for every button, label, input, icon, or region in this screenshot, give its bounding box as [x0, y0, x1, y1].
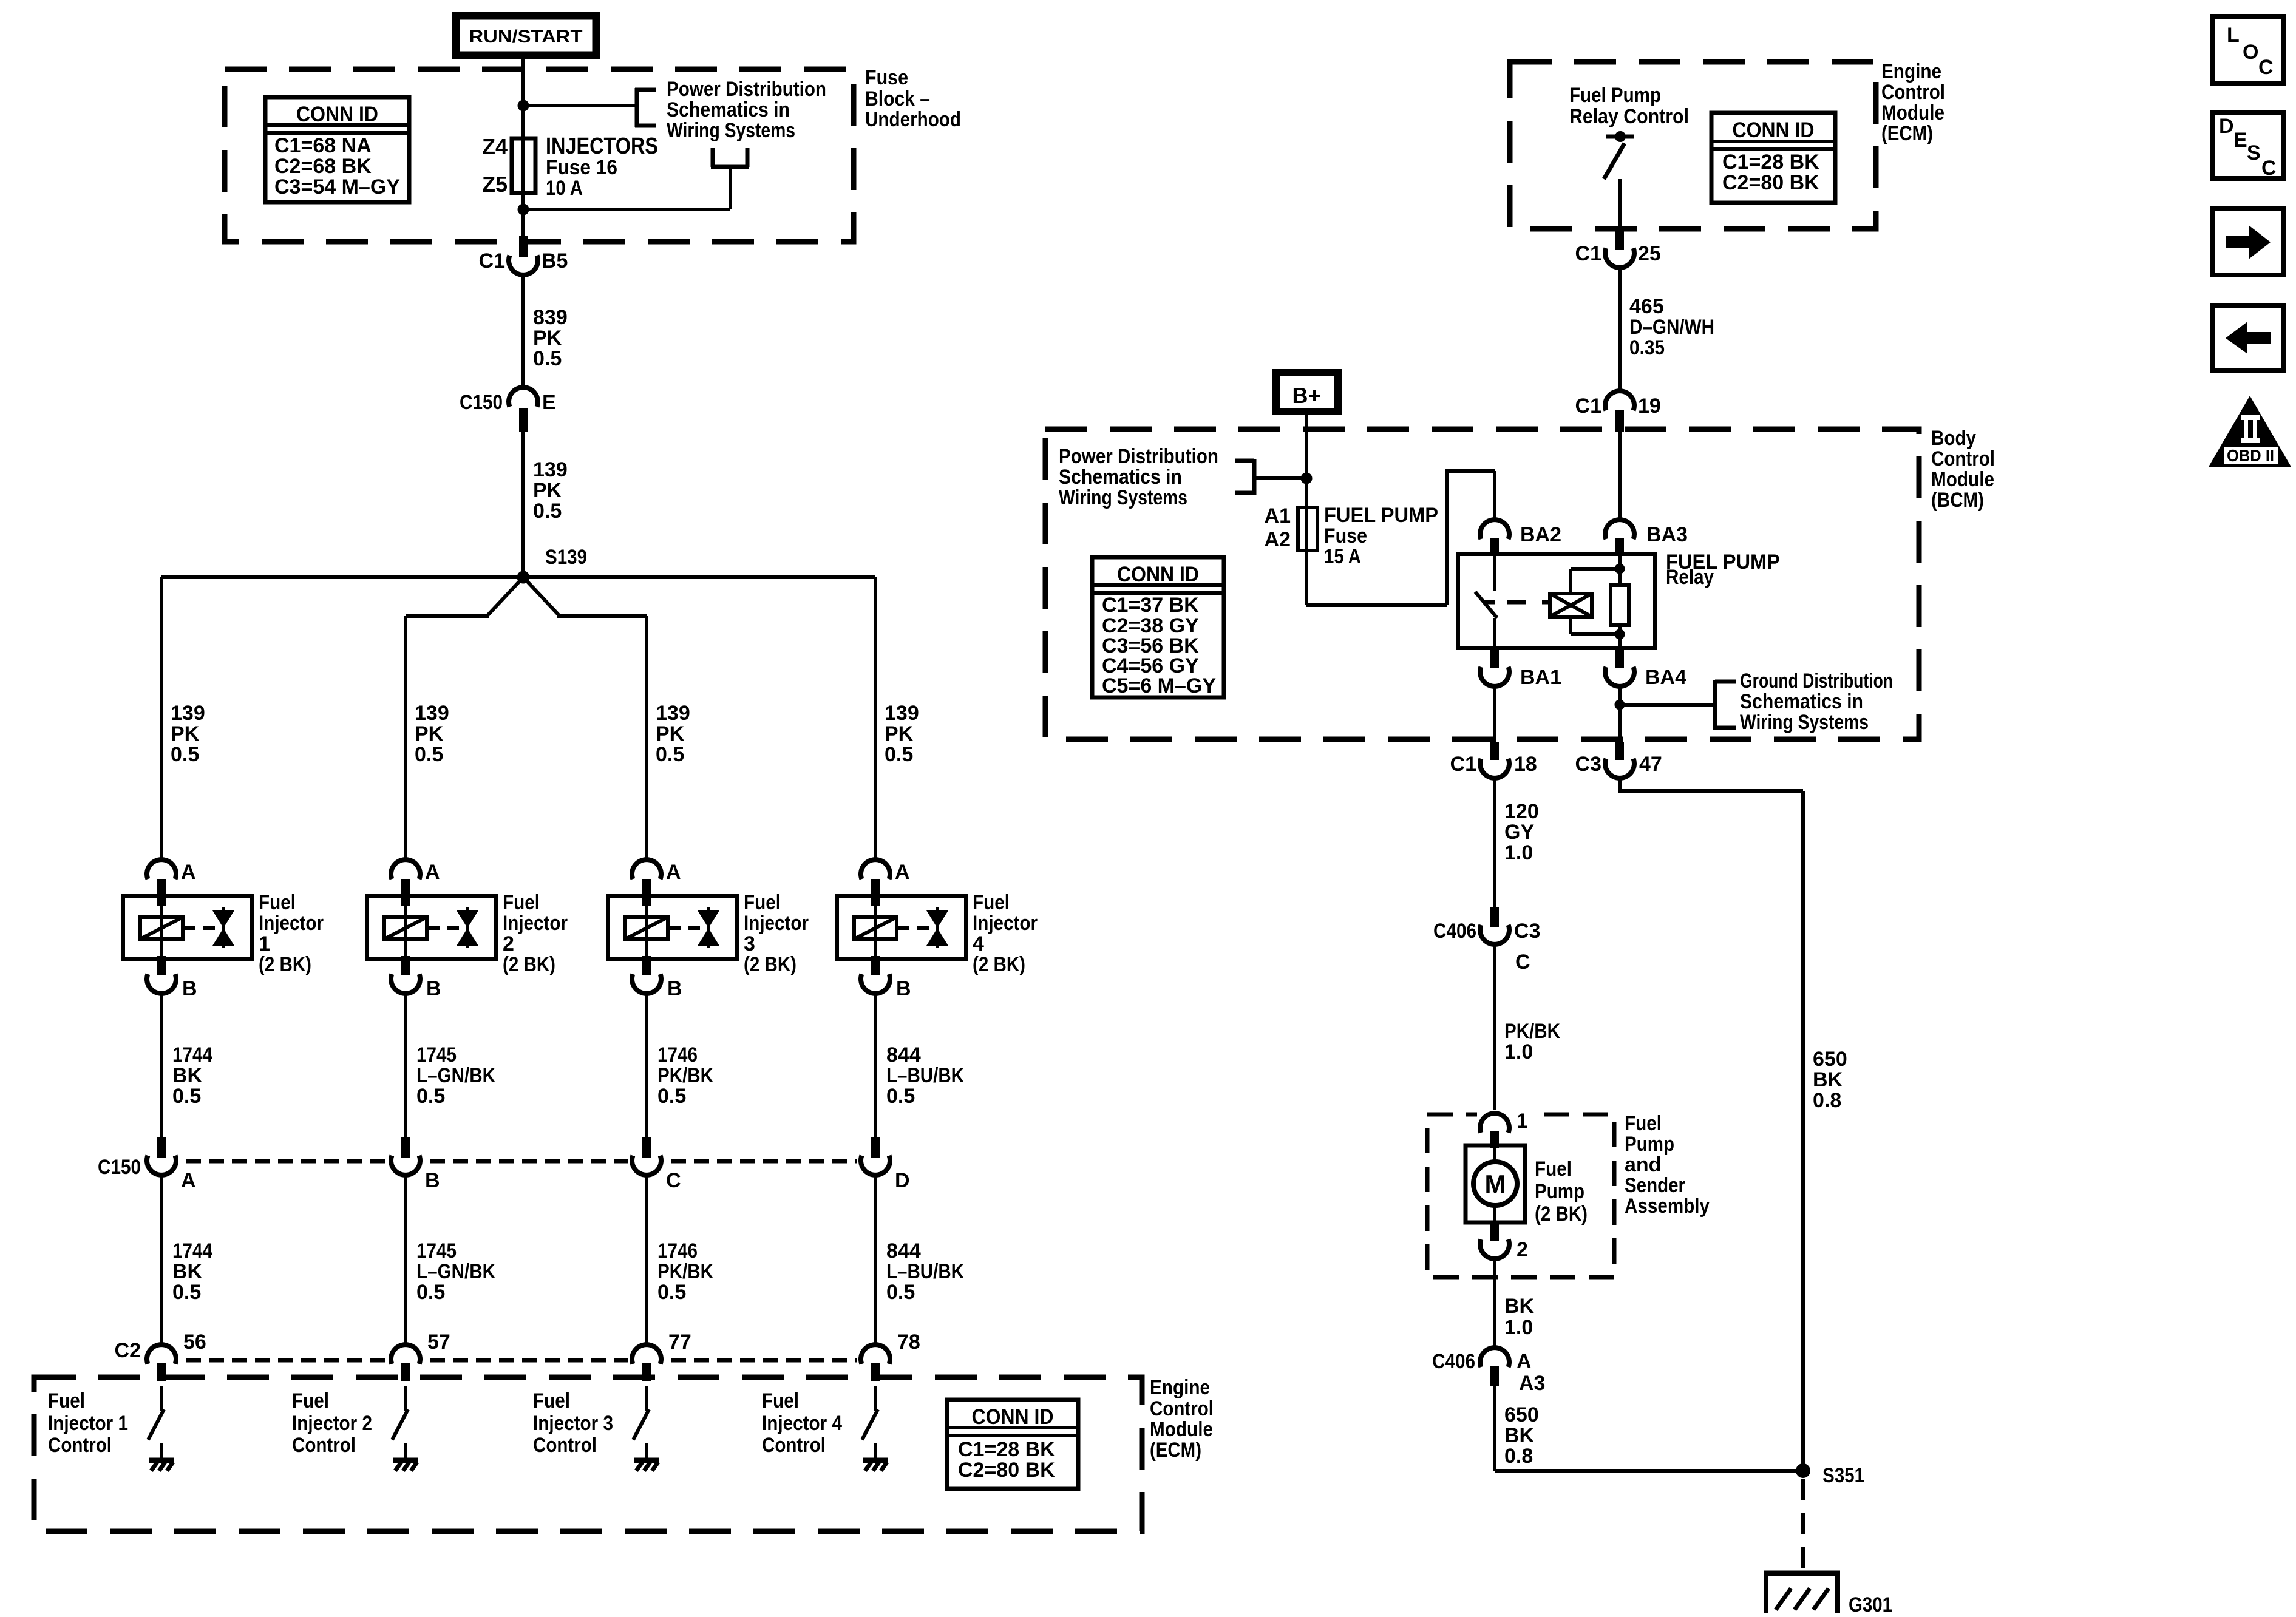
svg-text:CONN ID: CONN ID — [1733, 118, 1815, 142]
svg-text:1745: 1745 — [416, 1239, 457, 1263]
svg-text:Injector 4: Injector 4 — [762, 1412, 842, 1435]
connector pin 2 fuel pump — [1480, 1222, 1528, 1261]
svg-text:S139: S139 — [545, 546, 587, 569]
svg-text:D: D — [2219, 115, 2234, 138]
svg-text:1.0: 1.0 — [1504, 1316, 1533, 1339]
svg-text:0.5: 0.5 — [657, 1281, 686, 1304]
wire branch 3 139 PK 0.5 — [647, 616, 690, 862]
svg-text:PK: PK — [171, 722, 200, 745]
fuel pump and sender assembly dashed box — [1427, 1114, 1614, 1277]
svg-text:Injector 2: Injector 2 — [292, 1412, 372, 1435]
svg-text:650: 650 — [1504, 1403, 1539, 1426]
svg-text:Fuel: Fuel — [1625, 1112, 1662, 1135]
label FUEL PUMP Relay — [1666, 551, 1780, 589]
svg-text:0.5: 0.5 — [886, 1281, 915, 1304]
wire BA4 to C3 47 — [1618, 686, 1622, 742]
connector C2 pin 56 — [147, 1331, 206, 1381]
label Fuel Pump and Sender Assembly — [1625, 1112, 1710, 1218]
svg-text:C1=28 BK: C1=28 BK — [958, 1438, 1055, 1461]
svg-text:A1: A1 — [1265, 504, 1291, 527]
svg-text:Pump: Pump — [1625, 1133, 1674, 1156]
connector pin 1 fuel pump — [1477, 1110, 1532, 1148]
svg-text:Fuel: Fuel — [533, 1389, 570, 1412]
svg-text:3: 3 — [744, 932, 755, 955]
svg-text:Fuel: Fuel — [48, 1389, 85, 1412]
label Fuel Injector 4 Control — [762, 1389, 842, 1457]
svg-text:Schematics in: Schematics in — [1740, 690, 1863, 713]
svg-text:(ECM): (ECM) — [1150, 1439, 1201, 1462]
svg-text:B: B — [425, 1169, 440, 1192]
svg-text:(2 BK): (2 BK) — [503, 953, 555, 976]
svg-text:Schematics in: Schematics in — [667, 98, 790, 121]
connector C150 pin B — [391, 1137, 440, 1192]
svg-text:O: O — [2243, 41, 2258, 64]
svg-text:(2 BK): (2 BK) — [1535, 1202, 1588, 1225]
fuel pump relay control driver switch — [1604, 131, 1634, 232]
wire 844 L–BU/BK lower — [875, 1175, 964, 1346]
fuel injector 3 coil and valve — [608, 896, 737, 959]
icon OBD II triangle — [2209, 396, 2291, 467]
engine control module dashed box (top) — [1510, 62, 1876, 229]
connector pin A injector 1 — [147, 859, 196, 906]
svg-text:C150: C150 — [460, 391, 503, 414]
svg-text:Fuel: Fuel — [744, 891, 781, 914]
svg-text:839: 839 — [533, 306, 568, 329]
svg-text:PK: PK — [415, 722, 444, 745]
svg-text:139: 139 — [171, 702, 205, 725]
svg-text:Underhood: Underhood — [865, 108, 961, 131]
wire branch 1 139 PK 0.5 — [161, 577, 205, 862]
svg-text:Control: Control — [1881, 81, 1945, 104]
wire PK/BK 1.0 — [1495, 944, 1560, 1117]
wire 1745 L–GN/BK lower — [406, 1175, 495, 1346]
label Power Distribution Schematics in Wiring Systems (fuse block) — [667, 78, 826, 142]
connector ID table (ECM bottom) — [947, 1400, 1078, 1489]
svg-text:Injector: Injector — [973, 912, 1038, 935]
svg-text:Module: Module — [1150, 1418, 1213, 1441]
wire 839 PK 0.5 — [523, 274, 568, 388]
wire fuse to junction 2 — [521, 193, 525, 211]
svg-text:A: A — [895, 861, 910, 884]
wire BK 1.0 — [1495, 1259, 1535, 1349]
wire 1745 L–GN/BK upper — [406, 993, 495, 1141]
relay FUEL PUMP Relay box — [1458, 554, 1655, 648]
svg-text:Control: Control — [48, 1434, 112, 1457]
wire to power distribution bracket — [523, 88, 656, 127]
svg-text:Fuel: Fuel — [503, 891, 540, 914]
svg-text:A3: A3 — [1519, 1372, 1545, 1395]
svg-text:B+: B+ — [1292, 383, 1320, 408]
wire junction to fuse Z4 — [521, 106, 525, 141]
svg-text:77: 77 — [668, 1331, 691, 1354]
svg-text:Control: Control — [1931, 447, 1995, 470]
svg-text:1: 1 — [259, 932, 270, 955]
wire 650 BK 0.8 to S351 — [1495, 1386, 1803, 1471]
bus wire from S139 to branches — [161, 577, 875, 616]
relay coil loop wires — [1571, 569, 1620, 634]
svg-text:L–GN/BK: L–GN/BK — [416, 1260, 495, 1283]
svg-text:Power Distribution: Power Distribution — [667, 78, 826, 101]
label Fuel Injector 3 (2 BK) — [744, 891, 809, 976]
relay switch contact — [1475, 554, 1497, 648]
wire BA1 to C1 18 — [1493, 686, 1496, 742]
label Fuel Pump (2 BK) — [1535, 1158, 1588, 1225]
svg-text:B: B — [182, 977, 197, 1000]
resistor in relay — [1611, 556, 1629, 648]
svg-text:BA2: BA2 — [1520, 523, 1561, 546]
bracket to power distribution (BCM) — [1235, 459, 1306, 495]
connector pin A injector 3 — [632, 859, 681, 906]
svg-text:L: L — [2227, 24, 2240, 47]
svg-text:(BCM): (BCM) — [1931, 489, 1984, 512]
svg-text:0.35: 0.35 — [1629, 336, 1665, 359]
svg-text:Fuel: Fuel — [292, 1389, 329, 1412]
svg-text:2: 2 — [503, 932, 514, 955]
icon DESC — [2213, 113, 2284, 180]
svg-text:FUEL PUMP: FUEL PUMP — [1324, 504, 1438, 527]
svg-text:PK/BK: PK/BK — [657, 1260, 713, 1283]
svg-text:139: 139 — [533, 458, 568, 481]
svg-text:Fuel: Fuel — [1535, 1158, 1572, 1181]
svg-text:C1: C1 — [479, 249, 505, 273]
svg-text:BK: BK — [172, 1260, 203, 1283]
connector pin B injector 1 — [147, 956, 197, 1000]
connector pin B injector 3 — [632, 956, 682, 1000]
wire branch 4 139 PK 0.5 — [875, 577, 919, 862]
svg-text:Fuse: Fuse — [865, 66, 908, 89]
ground symbol injector 1 driver — [149, 1460, 174, 1471]
connector C1 18 — [1450, 742, 1537, 778]
svg-text:Control: Control — [292, 1434, 356, 1457]
svg-text:0.5: 0.5 — [416, 1085, 445, 1108]
fuel injector 4 coil and valve — [837, 896, 966, 959]
svg-text:C1=37 BK: C1=37 BK — [1102, 594, 1199, 617]
svg-text:A: A — [1517, 1350, 1532, 1373]
junction dot below fuse — [518, 204, 529, 215]
svg-text:Engine: Engine — [1881, 60, 1941, 83]
svg-text:RUN/START: RUN/START — [469, 27, 583, 47]
connector ID table (fuse block) — [265, 97, 409, 202]
svg-text:B: B — [896, 977, 911, 1000]
svg-text:15 A: 15 A — [1324, 545, 1361, 568]
label Fuse Block - Underhood — [865, 66, 961, 131]
label Fuel Injector 1 Control — [48, 1389, 128, 1457]
svg-text:Wiring Systems: Wiring Systems — [1059, 486, 1187, 509]
svg-text:PK: PK — [533, 327, 562, 350]
svg-text:Fuel: Fuel — [762, 1389, 799, 1412]
svg-text:C: C — [666, 1169, 681, 1192]
svg-text:120: 120 — [1504, 800, 1539, 823]
svg-text:GY: GY — [1504, 821, 1534, 844]
engine control module dashed box (bottom) — [34, 1377, 1142, 1531]
wire 844 L–BU/BK upper — [875, 993, 964, 1141]
label Fuel Injector 4 (2 BK) — [973, 891, 1038, 976]
svg-text:C1: C1 — [1575, 395, 1601, 418]
wire to fuse block edge — [521, 209, 525, 239]
svg-text:C1=68 NA: C1=68 NA — [274, 134, 372, 157]
svg-text:19: 19 — [1638, 395, 1661, 418]
svg-text:Injector: Injector — [259, 912, 324, 935]
junction dot ground distribution — [1615, 700, 1625, 710]
svg-text:C2: C2 — [115, 1339, 141, 1362]
svg-text:C1: C1 — [1575, 242, 1601, 265]
ground symbol injector 4 driver — [863, 1460, 888, 1471]
svg-text:Injector 1: Injector 1 — [48, 1412, 128, 1435]
svg-text:0.5: 0.5 — [657, 1085, 686, 1108]
connector ID table (BCM) — [1092, 557, 1224, 697]
svg-text:PK/BK: PK/BK — [1504, 1020, 1560, 1043]
label Fuel Injector 3 Control — [533, 1389, 613, 1457]
connector pin B injector 2 — [391, 956, 441, 1000]
svg-text:PK: PK — [656, 722, 685, 745]
icon arrow left — [2212, 305, 2284, 371]
wire 139 PK 0.5 main feed — [523, 432, 568, 577]
svg-text:Control: Control — [533, 1434, 597, 1457]
connector BA1 — [1480, 648, 1561, 689]
svg-text:Module: Module — [1881, 101, 1944, 124]
svg-text:A: A — [425, 861, 440, 884]
connector C1 B5 — [479, 236, 568, 275]
fuel injector 1 coil and valve — [123, 896, 252, 959]
svg-text:A: A — [666, 861, 681, 884]
svg-text:B: B — [667, 977, 682, 1000]
svg-text:0.5: 0.5 — [416, 1281, 445, 1304]
svg-text:139: 139 — [885, 702, 919, 725]
connector C406 A — [1432, 1347, 1545, 1395]
wire 1746 PK/BK lower — [647, 1175, 713, 1346]
fuel injector 4 control switch in ECM — [862, 1386, 878, 1459]
svg-text:10 A: 10 A — [546, 177, 583, 200]
svg-text:Fuel Pump: Fuel Pump — [1569, 84, 1661, 107]
fuel injector 2 control switch in ECM — [392, 1386, 408, 1459]
svg-text:0.8: 0.8 — [1813, 1089, 1841, 1112]
svg-text:C406: C406 — [1433, 920, 1476, 943]
svg-text:C3: C3 — [1575, 753, 1601, 776]
svg-text:465: 465 — [1629, 295, 1664, 318]
fuel injector 2 coil and valve — [367, 896, 496, 959]
svg-text:Sender: Sender — [1625, 1174, 1685, 1197]
svg-text:OBD II: OBD II — [2227, 446, 2274, 465]
svg-text:139: 139 — [415, 702, 449, 725]
svg-text:1.0: 1.0 — [1504, 1040, 1533, 1063]
svg-text:0.5: 0.5 — [533, 500, 562, 523]
label Fuel Injector 2 (2 BK) — [503, 891, 568, 976]
svg-text:S: S — [2247, 141, 2261, 164]
svg-text:Body: Body — [1931, 427, 1976, 450]
wire 465 D-GN/WH 0.35 — [1620, 268, 1714, 392]
svg-text:0.5: 0.5 — [415, 743, 443, 766]
relay actuation dashed link — [1507, 600, 1550, 605]
svg-text:Control: Control — [762, 1434, 826, 1457]
svg-text:650: 650 — [1813, 1048, 1847, 1071]
svg-text:Wiring Systems: Wiring Systems — [667, 119, 795, 142]
svg-text:47: 47 — [1639, 753, 1662, 776]
svg-text:57: 57 — [427, 1331, 450, 1354]
svg-text:Module: Module — [1931, 468, 1994, 491]
dashed wire S351 to ground — [1801, 1479, 1805, 1573]
connector C2 pin 78 — [861, 1331, 920, 1381]
svg-text:Relay Control: Relay Control — [1569, 105, 1689, 128]
svg-text:C1=28 BK: C1=28 BK — [1722, 151, 1819, 174]
label Fuel Pump Relay Control — [1569, 84, 1689, 128]
ground G301 — [1764, 1573, 1892, 1616]
svg-text:844: 844 — [886, 1239, 921, 1263]
dashed connector line C150 — [186, 1159, 857, 1164]
connector C406 C3 — [1433, 907, 1540, 974]
label Body Control Module BCM — [1931, 427, 1995, 512]
svg-text:139: 139 — [656, 702, 690, 725]
connector pin A injector 2 — [391, 859, 440, 906]
svg-text:E: E — [2233, 129, 2247, 152]
connector BA2 — [1480, 520, 1561, 556]
svg-text:CONN ID: CONN ID — [1117, 563, 1199, 586]
svg-text:L–BU/BK: L–BU/BK — [886, 1064, 964, 1087]
svg-text:E: E — [542, 391, 556, 414]
svg-text:L–BU/BK: L–BU/BK — [886, 1260, 964, 1283]
svg-text:Schematics in: Schematics in — [1059, 466, 1182, 489]
svg-text:0.5: 0.5 — [885, 743, 913, 766]
svg-text:B: B — [426, 977, 441, 1000]
svg-text:A2: A2 — [1265, 528, 1291, 551]
svg-text:Fuse: Fuse — [1324, 524, 1367, 547]
svg-text:0.5: 0.5 — [886, 1085, 915, 1108]
svg-text:C2=68 BK: C2=68 BK — [274, 155, 372, 178]
junction dot below RUN/START — [518, 100, 529, 112]
svg-text:M: M — [1485, 1170, 1506, 1198]
svg-text:C2=80 BK: C2=80 BK — [1722, 171, 1819, 194]
svg-text:Z5: Z5 — [482, 172, 508, 197]
junction dot relay top — [1615, 564, 1625, 574]
svg-text:0.5: 0.5 — [533, 347, 562, 370]
svg-text:BA4: BA4 — [1645, 666, 1686, 689]
label Ground Distribution Schematics in Wiring Systems — [1740, 670, 1893, 734]
relay coil — [1550, 594, 1592, 617]
svg-text:BA3: BA3 — [1646, 523, 1688, 546]
label Engine Control Module ECM (top) — [1881, 60, 1945, 145]
svg-text:25: 25 — [1638, 242, 1661, 265]
wire B+ feed down — [1305, 412, 1308, 510]
svg-text:C: C — [2261, 157, 2277, 180]
svg-text:(ECM): (ECM) — [1881, 122, 1933, 145]
connector C150 pin A — [147, 1137, 196, 1192]
connector ID table (ECM top) — [1711, 113, 1835, 203]
connector C2 pin 77 — [632, 1331, 691, 1381]
wire 1744 BK upper — [161, 993, 212, 1141]
ground symbol injector 3 driver — [634, 1460, 659, 1471]
fuel injector 1 control switch in ECM — [148, 1386, 164, 1459]
wire 1744 BK lower — [161, 1175, 212, 1346]
icon LOC — [2213, 16, 2284, 84]
svg-text:B5: B5 — [542, 249, 568, 273]
svg-text:Fuel: Fuel — [259, 891, 296, 914]
splice S351 — [1796, 1463, 1864, 1487]
svg-text:0.5: 0.5 — [172, 1085, 201, 1108]
connector C150 pin C — [632, 1137, 681, 1192]
connector C3 47 — [1575, 742, 1662, 778]
fuse block underhood dashed box — [225, 69, 854, 242]
svg-text:0.5: 0.5 — [172, 1281, 201, 1304]
svg-text:Block –: Block – — [865, 87, 930, 110]
svg-text:1745: 1745 — [416, 1043, 457, 1066]
svg-text:A: A — [181, 861, 196, 884]
svg-text:Ground Distribution: Ground Distribution — [1740, 670, 1893, 693]
svg-text:0.8: 0.8 — [1504, 1445, 1533, 1468]
svg-text:1: 1 — [1517, 1110, 1528, 1133]
svg-text:1746: 1746 — [657, 1043, 698, 1066]
svg-text:C3=54 M–GY: C3=54 M–GY — [274, 175, 400, 198]
svg-text:1.0: 1.0 — [1504, 841, 1533, 864]
svg-text:and: and — [1625, 1153, 1661, 1176]
svg-text:INJECTORS: INJECTORS — [546, 134, 658, 159]
svg-text:Z4: Z4 — [482, 134, 508, 159]
connector pin A injector 4 — [861, 859, 910, 906]
connector C2 pin 57 — [391, 1331, 450, 1381]
svg-text:1746: 1746 — [657, 1239, 698, 1263]
wire fuse to relay BA2 — [1306, 469, 1495, 605]
svg-text:1744: 1744 — [172, 1043, 212, 1066]
label Engine Control Module ECM (bottom) — [1150, 1376, 1214, 1462]
svg-text:C2=80 BK: C2=80 BK — [958, 1459, 1055, 1482]
svg-text:C1: C1 — [1450, 753, 1476, 776]
svg-text:PK: PK — [885, 722, 914, 745]
svg-text:Fuse 16: Fuse 16 — [546, 156, 617, 179]
svg-text:C: C — [1515, 951, 1530, 974]
svg-text:PK: PK — [533, 479, 562, 502]
svg-text:Power Distribution: Power Distribution — [1059, 445, 1218, 468]
connector C1 19 — [1575, 391, 1661, 432]
power tag RUN/START — [456, 16, 596, 55]
svg-text:Injector: Injector — [503, 912, 568, 935]
wire C1 19 to BA3 — [1618, 432, 1622, 521]
svg-text:S351: S351 — [1822, 1464, 1864, 1487]
svg-text:C: C — [2258, 56, 2274, 79]
svg-text:BA1: BA1 — [1520, 666, 1561, 689]
wire RUN/START to splice — [521, 55, 525, 107]
wire junction 2 to wiring-systems bracket — [523, 148, 749, 209]
connector C150 pin D — [861, 1137, 910, 1192]
svg-text:D: D — [895, 1169, 910, 1192]
svg-text:BK: BK — [1504, 1424, 1535, 1447]
svg-text:0.5: 0.5 — [171, 743, 199, 766]
label Power Distribution Schematics in Wiring Systems (BCM) — [1059, 445, 1218, 509]
label Fuel Injector 2 Control — [292, 1389, 372, 1457]
body control module dashed box — [1045, 429, 1919, 739]
svg-text:C406: C406 — [1432, 1350, 1475, 1373]
svg-text:C150: C150 — [98, 1156, 141, 1179]
junction dot relay bottom — [1615, 629, 1625, 640]
svg-text:Engine: Engine — [1150, 1376, 1210, 1399]
svg-text:C3: C3 — [1514, 920, 1540, 943]
svg-text:78: 78 — [897, 1331, 920, 1354]
fuse INJECTORS Fuse 16 10A (Z4/Z5) — [482, 134, 658, 200]
svg-text:BK: BK — [1504, 1295, 1535, 1318]
wire 650 BK 0.8 from C3 47 to S351 — [1620, 778, 1847, 1471]
svg-text:BK: BK — [172, 1064, 203, 1087]
svg-text:Wiring Systems: Wiring Systems — [1740, 711, 1869, 734]
svg-text:Control: Control — [1150, 1397, 1214, 1420]
ground symbol injector 2 driver — [393, 1460, 418, 1471]
svg-text:(2 BK): (2 BK) — [973, 953, 1025, 976]
svg-text:D–GN/WH: D–GN/WH — [1629, 316, 1714, 339]
splice S139 — [517, 546, 588, 584]
svg-text:0.5: 0.5 — [656, 743, 684, 766]
dashed connector line C2 — [186, 1358, 857, 1363]
wire 120 GY 1.0 — [1495, 778, 1539, 910]
svg-text:844: 844 — [886, 1043, 921, 1066]
svg-text:L–GN/BK: L–GN/BK — [416, 1064, 495, 1087]
wire branch 2 139 PK 0.5 — [406, 616, 449, 862]
wire and bracket to ground distribution — [1620, 680, 1736, 730]
